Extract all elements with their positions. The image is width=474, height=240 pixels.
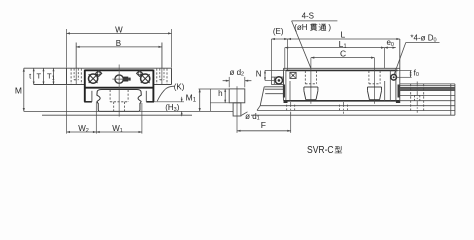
svg-text:T: T: [37, 72, 42, 81]
svg-text:4-S: 4-S: [302, 12, 314, 21]
svg-text:C: C: [340, 48, 346, 58]
svg-text:N: N: [256, 70, 262, 79]
svg-text:(øH: (øH: [294, 23, 308, 32]
svg-text:L: L: [341, 29, 346, 39]
svg-text:h: h: [218, 89, 222, 98]
svg-text:SVR-C: SVR-C: [307, 145, 334, 156]
svg-text:(K): (K): [174, 82, 185, 91]
svg-text:M: M: [15, 86, 22, 96]
svg-text:F: F: [261, 120, 266, 130]
svg-text:(E): (E): [273, 27, 284, 36]
svg-text:W: W: [115, 25, 123, 34]
svg-text:*4-ø D0: *4-ø D0: [410, 34, 436, 44]
svg-text:(H3): (H3): [165, 103, 180, 113]
svg-text:B: B: [116, 39, 121, 48]
svg-text:): ): [328, 23, 331, 32]
